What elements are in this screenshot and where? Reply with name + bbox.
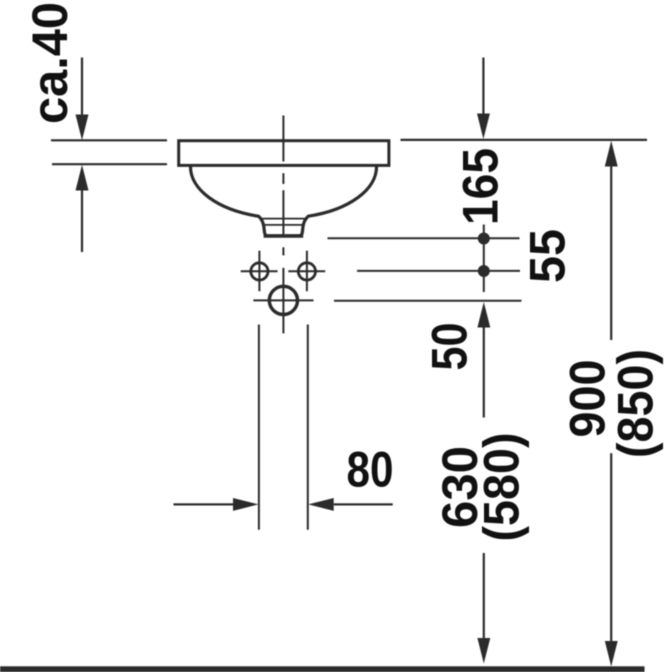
dim line 900 lower with arrow down	[605, 453, 618, 666]
faucet hole left crosslines	[241, 251, 278, 292]
dim line 55 ref	[357, 270, 520, 272]
svg-text:165: 165	[453, 148, 509, 225]
arrow down ca.40 top	[76, 58, 89, 141]
dim dot lower	[478, 265, 490, 277]
arrow up 900 at countertop	[605, 141, 618, 340]
faucet hole right crosslines	[288, 251, 325, 292]
drain hole circle	[269, 286, 297, 314]
svg-text:55: 55	[520, 229, 576, 283]
dim dot upper	[478, 233, 490, 245]
svg-text:50: 50	[422, 323, 478, 371]
arrow right 80	[174, 498, 259, 511]
faucet hole right	[298, 263, 315, 280]
drain line 2	[262, 224, 304, 226]
extension line 80 right	[307, 325, 309, 530]
countertop bottom line left	[52, 163, 167, 165]
dim line 630 lower with arrow down	[477, 553, 490, 664]
arrow up ca.40 bottom	[76, 165, 89, 252]
svg-text:(850): (850)	[608, 349, 664, 458]
dim stem with dots	[483, 225, 485, 293]
arrow down 165	[477, 58, 490, 140]
extension line 80 left	[258, 325, 260, 530]
svg-text:ca.40: ca.40	[22, 2, 78, 124]
dim line 50 ref	[334, 300, 522, 302]
floor line	[0, 666, 645, 672]
centerline vertical	[282, 116, 284, 334]
drain hole crossline	[253, 299, 313, 301]
basin bowl	[190, 167, 376, 236]
faucet hole left	[251, 263, 268, 280]
arrow left 80	[308, 498, 393, 511]
basin rim	[179, 141, 389, 166]
dim line 165 ref top	[328, 237, 520, 239]
countertop top line left	[51, 139, 167, 141]
drain bottom	[264, 234, 304, 237]
countertop top line right	[401, 139, 648, 141]
svg-text:80: 80	[347, 442, 394, 498]
arrow up 50	[477, 302, 490, 418]
svg-text:(580): (580)	[474, 433, 530, 542]
drain line 1	[261, 218, 307, 220]
